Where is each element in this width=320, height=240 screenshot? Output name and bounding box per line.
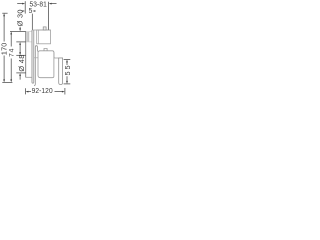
handle neck bottom edge [26, 41, 32, 43]
dim 5 leader right [34, 10, 36, 12]
mixer body outline with top cap [38, 49, 54, 78]
dia 48 bottom arrow tail [19, 75, 21, 80]
wall plate (left side view) [32, 30, 34, 83]
dim 170 top reference [2, 12, 7, 14]
arrowhead 92-120 left [26, 91, 29, 93]
extension line plate front [31, 14, 33, 30]
handle front face line (left side view) [25, 31, 27, 77]
arrowhead 53-81 right [49, 3, 52, 5]
handle top edge [26, 31, 32, 33]
lever grip bar [59, 58, 63, 85]
svg-text:Ø 48: Ø 48 [17, 54, 26, 71]
arrowhead 5 right [32, 10, 35, 12]
extension line 92-120 right [64, 88, 66, 95]
dia 30 top reference [10, 30, 26, 32]
dim 55 line lower [66, 76, 68, 82]
svg-text:Ø 30: Ø 30 [16, 9, 25, 26]
dim 170 bottom reference [2, 81, 12, 83]
svg-text:92-120: 92-120 [32, 88, 53, 95]
dia 30 bottom reference [16, 41, 25, 43]
handle neck shading [26, 32, 29, 42]
arrowhead 74 top [10, 32, 12, 35]
rough-in box top edge [32, 29, 51, 31]
dim 170 line lower [3, 56, 5, 82]
lever hub top line [34, 57, 38, 59]
arrowhead dia48 down [19, 52, 21, 55]
dia 30 arrow tail [19, 27, 21, 29]
arrowhead dia30 up [19, 42, 21, 45]
svg-text:5: 5 [29, 8, 33, 15]
rough-in box flange line [37, 30, 39, 44]
arrowhead dia30 down [19, 28, 21, 31]
arrowhead 55 bottom [66, 81, 68, 84]
dim 55 line upper [66, 61, 68, 65]
stop screw on box top [43, 27, 46, 30]
extension line handle face [24, 1, 26, 13]
extension line box rear [48, 2, 50, 30]
arrowhead 55 top [66, 60, 68, 63]
dia 48 bottom reference [16, 72, 25, 74]
dim 92-120 leader left [28, 91, 31, 93]
shared dim line between dia30 and dia48 [19, 44, 21, 54]
svg-text:55: 55 [65, 63, 72, 75]
dim 53-81 leader left [17, 3, 23, 5]
dia 48 top reference [16, 54, 25, 56]
extension line 92-120 left [24, 88, 26, 94]
dim 55 top reference [64, 58, 71, 60]
arrowhead 53-81 left [22, 3, 25, 5]
arrowhead 74 bottom [10, 79, 12, 82]
concealed rough-in box [37, 30, 51, 44]
arrowhead dia48 up [19, 73, 21, 76]
arrowhead 5 left [23, 10, 26, 12]
dim 53-81 leader right [51, 3, 57, 5]
dim 92-120 leader right [55, 91, 63, 93]
dim 74 line upper [10, 33, 12, 47]
svg-text:74: 74 [8, 48, 15, 57]
arrowhead 92-120 right [62, 91, 65, 93]
dim 55 bottom reference [64, 83, 71, 85]
dim 170 line upper [3, 15, 5, 42]
handle bottom edge [26, 76, 32, 78]
dim 5 leader left [22, 10, 24, 12]
arrowhead 170 top [3, 13, 5, 16]
arrowhead 170 bottom [3, 79, 5, 82]
wall plate (right side view) [34, 46, 37, 86]
lever arm top step [54, 52, 63, 58]
svg-text:170: 170 [0, 43, 9, 56]
dim 74 line lower [10, 59, 12, 82]
